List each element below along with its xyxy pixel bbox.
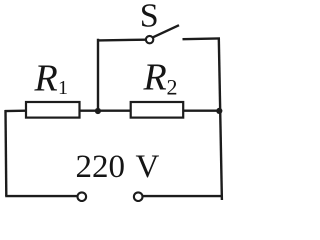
switch S blade — [153, 25, 179, 37]
wire: middle vertical (top node down to junction) — [97, 39, 99, 112]
terminal circle: 220V left terminal — [78, 192, 87, 201]
svg-text:R: R — [143, 57, 167, 99]
wire: bottom left segment to terminal — [5, 195, 77, 197]
wire: junction to R2 — [98, 109, 131, 111]
svg-text:220V: 220V — [76, 149, 160, 185]
wire: top left segment (mid rail to switch) — [98, 39, 146, 42]
svg-text:S: S — [140, 0, 159, 34]
wire: left vertical rail — [4, 110, 7, 196]
wire: R2 right lead — [183, 109, 219, 111]
wire: top right segment (switch to right rail) — [183, 37, 221, 40]
svg-text:2: 2 — [167, 75, 178, 100]
wire: R1 right lead to junction — [80, 109, 98, 111]
svg-text:1: 1 — [58, 77, 68, 99]
wire: right vertical rail — [219, 38, 222, 200]
terminal circle: 220V right terminal — [134, 192, 143, 201]
resistor R1 box — [26, 102, 80, 118]
wire: R1 left lead — [5, 109, 26, 112]
resistor R2 box — [131, 102, 184, 118]
junction node right (dot) — [216, 108, 222, 114]
junction node left (dot) — [95, 108, 101, 114]
svg-text:R: R — [34, 57, 58, 99]
switch S hinge circle — [146, 36, 153, 43]
wire: bottom right segment from terminal — [143, 195, 222, 197]
